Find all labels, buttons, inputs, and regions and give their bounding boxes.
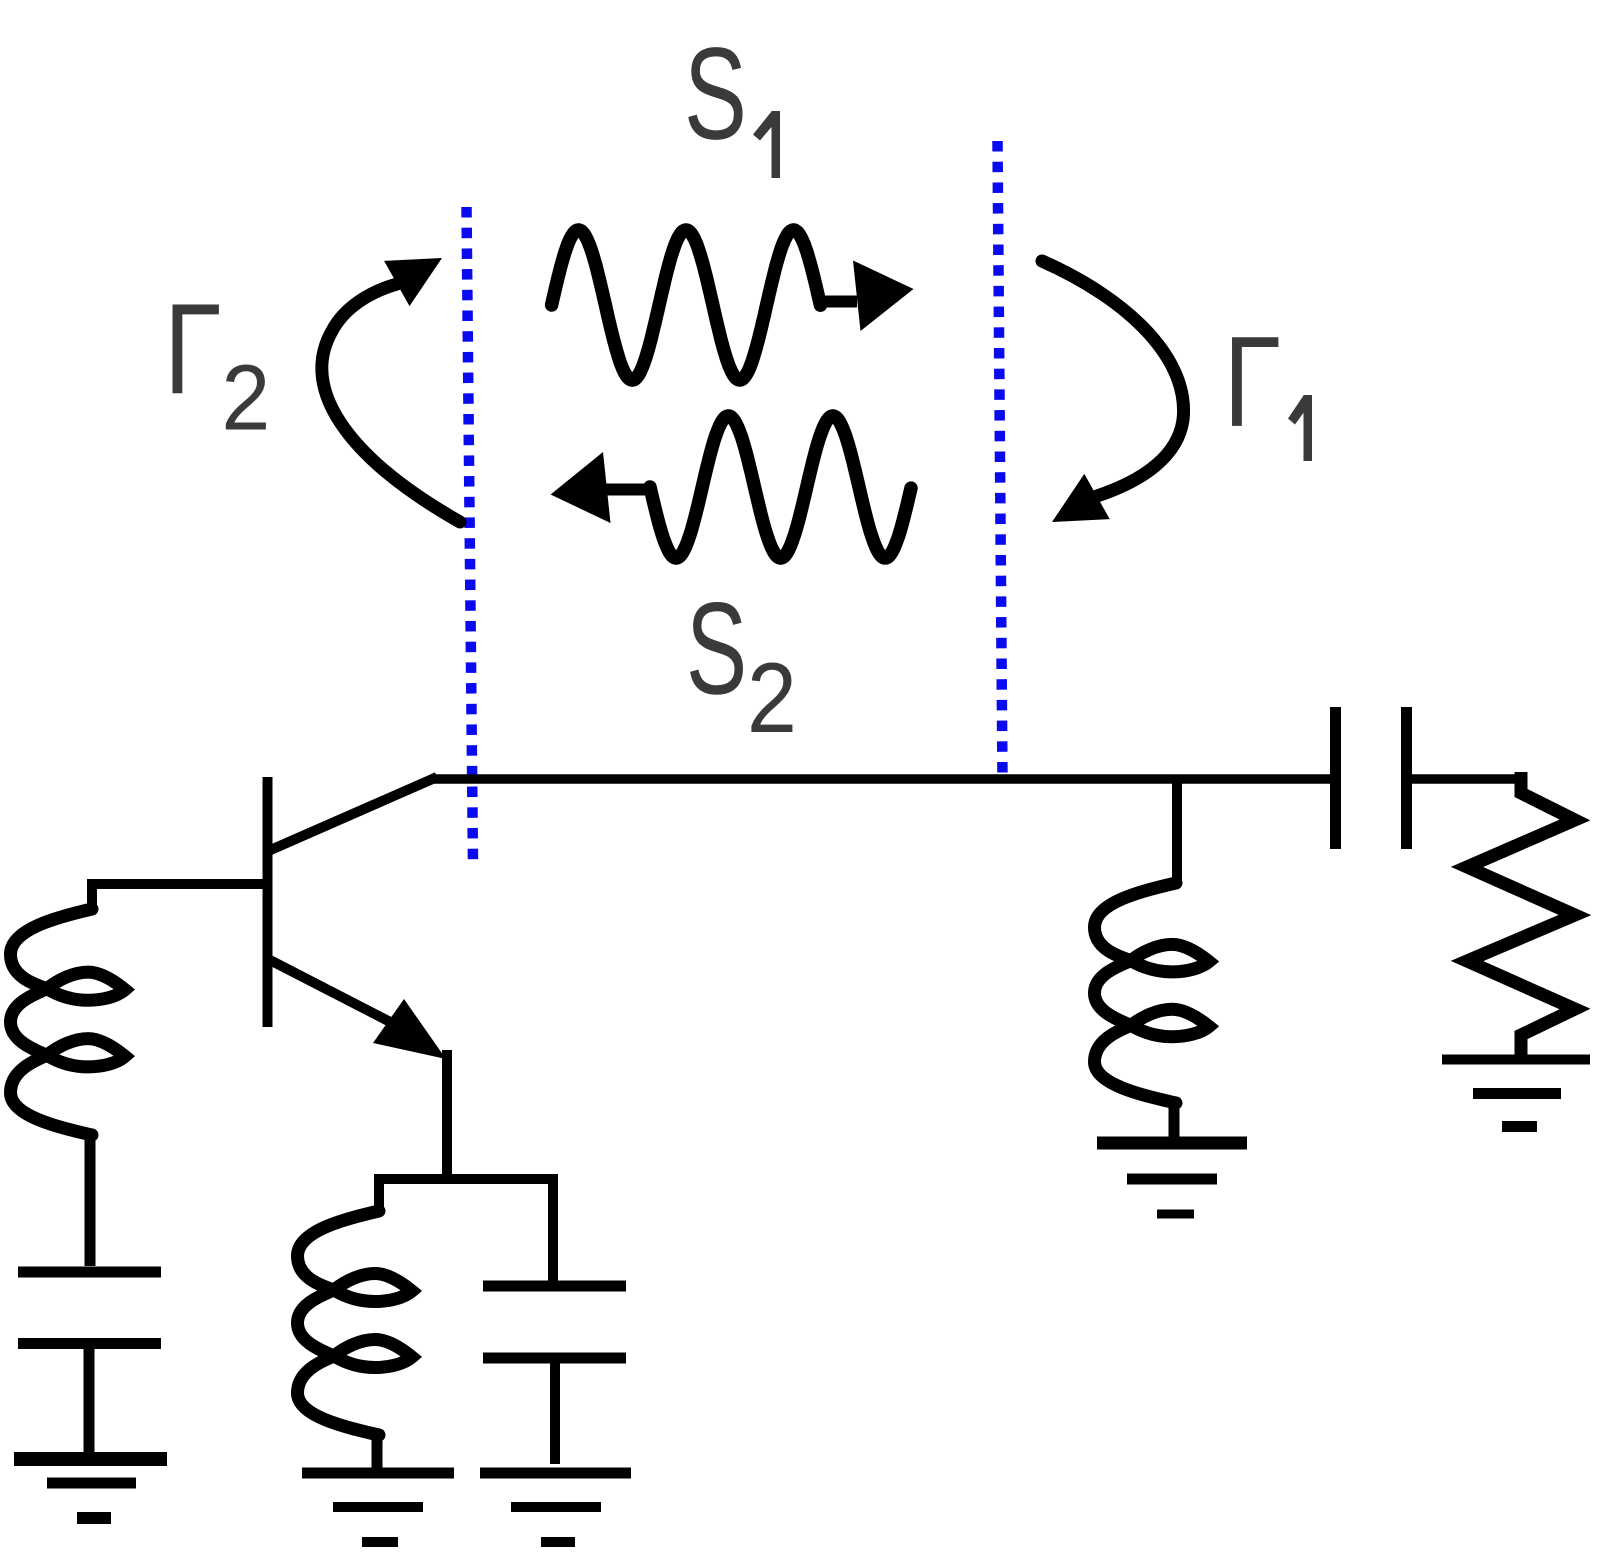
capacitor C1 bbox=[18, 1272, 161, 1344]
wire C2 to ground bbox=[550, 1363, 560, 1464]
svg-text:S: S bbox=[686, 575, 747, 721]
wire base bbox=[92, 879, 267, 910]
incident wave S1 (sine wave) bbox=[552, 230, 821, 380]
wire L2 to ground bbox=[372, 1434, 383, 1468]
wire C1 to ground bbox=[84, 1349, 95, 1453]
inductor L1 (base) bbox=[11, 909, 126, 1135]
arrowhead S2 (points left) bbox=[551, 452, 611, 523]
svg-text:2: 2 bbox=[221, 346, 270, 450]
svg-text:Γ: Γ bbox=[164, 276, 222, 421]
wire C3 to R1 bbox=[1411, 774, 1518, 784]
capacitor C2 bbox=[483, 1286, 626, 1358]
svg-text:2: 2 bbox=[747, 643, 797, 754]
wire S1 arrow stub bbox=[821, 296, 857, 308]
label Gamma2 bbox=[164, 276, 270, 450]
ground (L3 branch) bbox=[1097, 1143, 1247, 1214]
reference plane 1 (blue dotted line, right) bbox=[998, 141, 1003, 780]
ground (load) bbox=[1442, 1060, 1590, 1127]
ground (L2 branch) bbox=[302, 1473, 454, 1542]
arrowhead Gamma1 (points down-left) bbox=[1052, 474, 1110, 522]
reference plane 2 (blue dotted line, left) bbox=[467, 207, 474, 865]
wire to C2 bbox=[548, 1174, 558, 1282]
ground (C2 branch) bbox=[480, 1473, 631, 1542]
wire collector (node S2 plane) bbox=[433, 774, 1332, 784]
svg-text:S: S bbox=[684, 22, 747, 168]
inductor L2 (emitter) bbox=[298, 1211, 413, 1435]
wire emitter bbox=[374, 1050, 553, 1212]
wire S2 arrow stub bbox=[605, 484, 652, 496]
inductor L3 (collector shunt) bbox=[1095, 883, 1210, 1103]
label S1 bbox=[684, 22, 780, 178]
wire collector junction to L3 bbox=[1172, 779, 1182, 884]
curved arrow Gamma2 bbox=[322, 284, 460, 522]
label S2 bbox=[686, 575, 797, 754]
arrowhead Gamma2 (points up-right) bbox=[384, 258, 442, 306]
wire L1 to C1 bbox=[85, 1134, 96, 1266]
svg-text:Γ: Γ bbox=[1223, 309, 1281, 454]
transistor Q1 (BJT) bbox=[266, 777, 446, 1059]
reflected wave S2 (sine wave) bbox=[650, 416, 911, 558]
curved arrow Gamma1 bbox=[1042, 261, 1184, 496]
label Gamma1 bbox=[1223, 309, 1312, 461]
wire L3 to ground bbox=[1169, 1102, 1180, 1138]
arrowhead S1 (points right) bbox=[853, 261, 914, 332]
resistor R1 (load) bbox=[1467, 772, 1575, 1056]
ground (base branch) bbox=[14, 1459, 167, 1518]
capacitor C3 (series output) bbox=[1336, 707, 1407, 849]
